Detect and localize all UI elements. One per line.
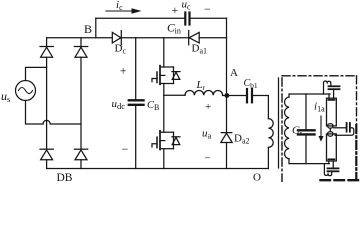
svg-text:udc: udc [112, 98, 126, 111]
diode D_c [112, 31, 121, 45]
top wire right of C_in [190, 17, 227, 19]
wire C_b1 to primary [252, 96, 268, 119]
dashed box bottom (thick) [321, 179, 361, 181]
svg-text:Da2: Da2 [234, 133, 250, 146]
diode D_a2 [221, 133, 232, 143]
transformer secondary winding [285, 97, 289, 159]
half-bridge leg top wire [163, 38, 165, 67]
mosfet S2 [152, 131, 180, 150]
wire between middle filaments [329, 128, 331, 131]
wire L_r to node A [223, 95, 247, 97]
bottom rail [47, 168, 269, 170]
capacitor C_r stub bottom [305, 136, 307, 164]
coupling capacitor [347, 123, 350, 132]
svg-text:ua: ua [202, 128, 212, 141]
svg-text:Da1: Da1 [192, 43, 208, 56]
svg-text:−: − [205, 153, 211, 165]
mosfet S1 [152, 66, 180, 85]
mosfet S2 bottom wire [163, 149, 165, 169]
bridge top rail to node B and D_c [47, 37, 113, 39]
bottom filament capacitor [328, 168, 339, 171]
inductor L_r [185, 90, 223, 95]
wire node A to D_a2 to bottom rail [226, 96, 228, 169]
svg-text:O: O [253, 172, 261, 183]
bridge right leg wire [80, 38, 82, 169]
wire source bottom to right leg midpoint [26, 101, 44, 125]
electrode bar bottom lamp [328, 158, 334, 160]
svg-text:us: us [1, 89, 10, 104]
top filament coil [324, 81, 331, 94]
wire D_a1 to node A column [199, 37, 226, 39]
capacitor C_in [185, 13, 189, 25]
capacitor C_r [298, 130, 315, 134]
primary bottom wire [267, 147, 269, 168]
svg-text:DB: DB [57, 172, 73, 182]
filament ring top lamp bottom [328, 124, 334, 129]
capacitor C_r stub top [305, 94, 307, 129]
svg-text:A: A [230, 67, 238, 79]
svg-text:ic: ic [116, 0, 123, 12]
wire midpoint to L_r [164, 94, 185, 96]
svg-text:Lr: Lr [196, 79, 206, 92]
wire source top to left leg midpoint [26, 67, 47, 80]
bridge diode bottom-left [40, 149, 53, 160]
svg-text:−: − [122, 142, 129, 156]
bridge diode bottom-right [74, 149, 87, 160]
transformer core [278, 78, 280, 168]
top filament pin wires [329, 89, 334, 98]
secondary bottom corner wire [289, 159, 329, 164]
riser B to top wire [95, 18, 97, 38]
svg-text:uc: uc [182, 0, 192, 12]
wire D_c to D_a1 [121, 37, 188, 39]
bottom filament pin wires [329, 161, 333, 169]
mosfet midpoint wire down [163, 84, 165, 133]
transformer primary winding [268, 119, 273, 148]
capacitor C_B [129, 100, 144, 105]
svg-text:Dc: Dc [115, 43, 127, 56]
filament ring bottom lamp top [328, 132, 334, 137]
svg-text:−: − [204, 2, 211, 16]
svg-text:+: + [172, 3, 179, 17]
node A junction dot [225, 93, 230, 98]
AC source us [16, 81, 36, 101]
svg-text:+: + [205, 101, 211, 113]
svg-text:B: B [84, 22, 92, 36]
bridge diode top-right [74, 47, 87, 58]
vertical wire C_in to node A [226, 18, 228, 95]
electrode bar top lamp [328, 99, 334, 101]
arrow i_c [106, 8, 142, 13]
svg-text:CB: CB [147, 100, 159, 112]
dashed box right edge lower (thicker) [355, 125, 357, 179]
svg-text:Cr: Cr [292, 125, 302, 138]
coupling cap return loop [335, 128, 354, 135]
top filament capacitor [329, 86, 340, 89]
lamp tube bottom [327, 134, 337, 161]
wire hop over left leg [43, 120, 81, 124]
secondary top corner wire [289, 94, 330, 97]
svg-text:Cb1: Cb1 [244, 78, 258, 90]
bridge diode top-left [40, 47, 53, 58]
capacitor C_B branch top wire [135, 38, 137, 99]
middle wire to coupling cap [334, 127, 347, 129]
capacitor C_B branch bottom wire [135, 106, 137, 169]
top wire left of C_in [96, 17, 185, 19]
diode D_a1 [189, 31, 200, 45]
bottom filament coil [324, 164, 331, 176]
lamp tube top [327, 98, 337, 126]
capacitor C_b1 [247, 89, 252, 102]
svg-text:Cin: Cin [167, 23, 181, 36]
svg-text:i1a: i1a [314, 101, 325, 114]
arrow i_1a [319, 116, 324, 142]
svg-text:+: + [120, 63, 127, 77]
dashed box lamp module [282, 76, 357, 182]
bridge left leg wire [46, 38, 48, 169]
